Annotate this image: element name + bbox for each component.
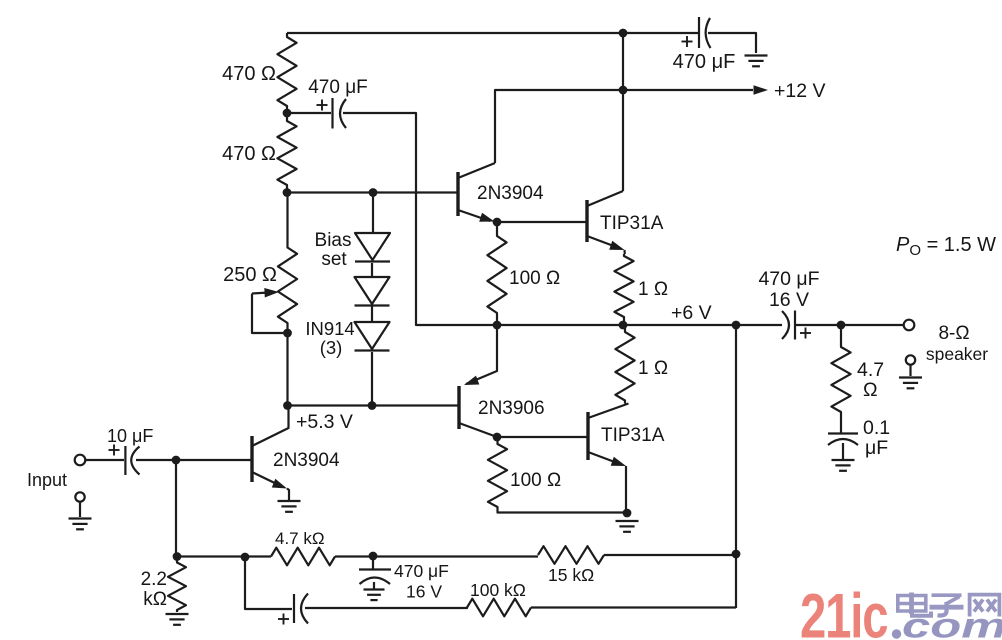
wire collector feed xyxy=(622,33,624,191)
wire R7 to output ground xyxy=(498,509,628,513)
svg-text:16 V: 16 V xyxy=(769,289,809,311)
wire Q5 emitter stub xyxy=(287,489,289,501)
capacitor C4 0.1uF zobel xyxy=(828,417,890,459)
svg-text:8-Ω: 8-Ω xyxy=(938,323,969,344)
resistor R9 2.2k xyxy=(141,557,186,613)
label +6 V xyxy=(671,302,712,324)
transistor Q4 TIP31A lower output xyxy=(588,404,665,467)
svg-text:1 Ω: 1 Ω xyxy=(638,358,668,379)
wire bootstrap to output node xyxy=(343,113,493,325)
capacitor C7 bottom electrolytic xyxy=(278,594,467,625)
transistor Q2 TIP31A upper output xyxy=(587,191,664,250)
svg-text:kΩ: kΩ xyxy=(143,589,167,610)
resistor R10 4.7k xyxy=(271,529,335,565)
svg-text:(3): (3) xyxy=(320,337,343,358)
potentiometer R3 250 ohm xyxy=(223,193,297,334)
capacitor C3 470uF 16V output coupling xyxy=(758,268,819,340)
node Q3 collector xyxy=(493,433,502,442)
wire speaker return stub xyxy=(909,365,911,376)
svg-text:21ic: 21ic xyxy=(800,581,888,640)
label +5.3 V xyxy=(296,411,353,433)
node diode chain bottom xyxy=(368,401,377,410)
wire diode chain xyxy=(372,193,373,406)
ground speaker return xyxy=(899,378,922,389)
+12 V supply arrow xyxy=(754,80,826,102)
pot wiper arm xyxy=(252,288,287,333)
svg-text:+5.3 V: +5.3 V xyxy=(296,411,353,433)
resistor R1 470 ohm upper bias xyxy=(222,33,296,113)
node top rail junction xyxy=(619,29,628,38)
label IN914 (3) xyxy=(305,318,354,358)
node bootstrap / Q3 emitter xyxy=(493,321,502,330)
svg-text:250 Ω: 250 Ω xyxy=(223,264,277,286)
resistor R4 100 ohm upper xyxy=(487,222,560,325)
node R9 top xyxy=(173,552,182,561)
terminal speaker return xyxy=(906,355,915,364)
svg-text:2N3906: 2N3906 xyxy=(478,398,545,419)
svg-text:2.2: 2.2 xyxy=(141,569,167,590)
svg-text:TIP31A: TIP31A xyxy=(600,213,664,234)
node C7 branch xyxy=(241,553,250,562)
svg-text:10 μF: 10 μF xyxy=(107,426,153,446)
diode D2 IN914 xyxy=(355,277,390,306)
svg-text:com: com xyxy=(902,607,1002,640)
svg-text:470 μF: 470 μF xyxy=(758,268,819,290)
wire to speaker terminal xyxy=(795,324,903,326)
node Q1 base rail left xyxy=(283,188,292,197)
svg-text:TIP31A: TIP31A xyxy=(601,425,665,446)
node pot wiper junction xyxy=(283,329,292,338)
node feedback takeoff xyxy=(732,321,741,330)
wire Q1 emitter to Q2 base xyxy=(497,221,587,223)
ground input return xyxy=(69,519,92,530)
capacitor C6 470uF 16V xyxy=(359,556,449,602)
svg-text:IN914: IN914 xyxy=(305,318,354,339)
svg-text:1 Ω: 1 Ω xyxy=(638,279,668,300)
watermark com xyxy=(902,607,1002,640)
watermark dianziwang xyxy=(892,593,1000,639)
node input bias tap xyxy=(172,456,181,465)
wire feedback vertical xyxy=(735,325,737,608)
ground output stage xyxy=(616,521,639,532)
svg-text:Bias: Bias xyxy=(315,230,352,251)
svg-text:0.1: 0.1 xyxy=(863,417,890,439)
watermark 21ic xyxy=(800,581,888,640)
node feedback junction xyxy=(732,550,741,559)
resistor R2 470 ohm lower bias xyxy=(222,113,296,192)
diode D1 IN914 xyxy=(355,233,390,262)
svg-text:Input: Input xyxy=(27,470,67,490)
resistor R11 15k xyxy=(538,546,604,585)
node +12V rail to output collector xyxy=(619,86,628,95)
resistor R12 100k xyxy=(467,580,531,616)
node +5.3V rail left xyxy=(283,401,292,410)
node diode chain top xyxy=(369,188,378,197)
svg-text:+6 V: +6 V xyxy=(671,302,712,324)
wire Q1 base rail xyxy=(287,191,458,193)
node bootstrap tap xyxy=(283,109,292,118)
node zobel tap xyxy=(837,321,846,330)
wire C5 to Q5 base xyxy=(136,459,252,461)
resistor R7 100 ohm lower xyxy=(488,437,561,509)
transistor Q5 2N3904 input xyxy=(252,406,340,489)
wire Q3 collector to Q4 base xyxy=(497,436,588,438)
svg-text:470 μF: 470 μF xyxy=(308,77,368,98)
terminal output xyxy=(904,320,989,364)
node output junction xyxy=(619,321,628,330)
capacitor C2 470uF bootstrap xyxy=(287,77,368,129)
transistor Q3 2N3906 xyxy=(459,325,545,437)
capacitor C5 10uF input coupling xyxy=(86,426,153,475)
diode D3 IN914 xyxy=(355,322,390,351)
svg-text:μF: μF xyxy=(865,437,888,459)
wire pot to +5.3V rail xyxy=(286,333,288,406)
wire C7 branch xyxy=(245,557,292,609)
svg-text:4.7: 4.7 xyxy=(857,359,884,381)
svg-text:100 Ω: 100 Ω xyxy=(509,268,560,289)
svg-text:2N3904: 2N3904 xyxy=(477,183,544,204)
svg-text:470 μF: 470 μF xyxy=(673,51,736,73)
wire top supply rail xyxy=(287,32,699,34)
wire +6V output rail xyxy=(497,324,782,326)
node Q1 emitter xyxy=(493,218,502,227)
node C6 tap xyxy=(369,552,378,561)
wire Q4 emitter drop xyxy=(625,466,627,513)
wire feedback lower rail xyxy=(177,555,736,557)
terminal input xyxy=(27,455,85,490)
svg-text:15 kΩ: 15 kΩ xyxy=(548,565,594,585)
svg-text:+12 V: +12 V xyxy=(774,80,826,102)
svg-text:speaker: speaker xyxy=(926,344,988,364)
svg-text:4.7 kΩ: 4.7 kΩ xyxy=(275,529,325,548)
ground zobel xyxy=(832,460,855,471)
svg-text:470 Ω: 470 Ω xyxy=(222,143,276,165)
wire bias divider drop xyxy=(175,460,177,557)
node output stage ground xyxy=(623,509,632,518)
label bias set xyxy=(315,230,352,270)
svg-text:470 Ω: 470 Ω xyxy=(222,63,276,85)
capacitor C1 470uF supply filter xyxy=(673,17,756,73)
label Po = 1.5 W xyxy=(896,234,996,259)
svg-text:16 V: 16 V xyxy=(406,582,442,602)
svg-text:Ω: Ω xyxy=(863,379,878,401)
wire +12V rail xyxy=(495,90,753,163)
svg-text:set: set xyxy=(321,249,347,270)
resistor R5 1 ohm upper emitter xyxy=(614,250,668,325)
wire input return stub xyxy=(79,502,81,517)
terminal input return xyxy=(75,492,84,501)
svg-text:100 Ω: 100 Ω xyxy=(510,470,561,491)
svg-text:100 kΩ: 100 kΩ xyxy=(470,580,526,600)
ground R9 xyxy=(166,614,189,625)
ground C6 xyxy=(364,590,385,601)
transistor Q1 2N3904 driver xyxy=(458,163,544,222)
wire +5.3V rail xyxy=(288,404,460,406)
ground supply filter xyxy=(745,56,768,67)
svg-text:470 μF: 470 μF xyxy=(394,561,449,581)
resistor R6 4.7 ohm zobel xyxy=(831,325,884,418)
wire bottom to feedback xyxy=(531,606,736,608)
ground Q5 emitter xyxy=(278,501,301,512)
svg-text:2N3904: 2N3904 xyxy=(273,450,340,471)
resistor R8 1 ohm lower xyxy=(615,325,668,404)
